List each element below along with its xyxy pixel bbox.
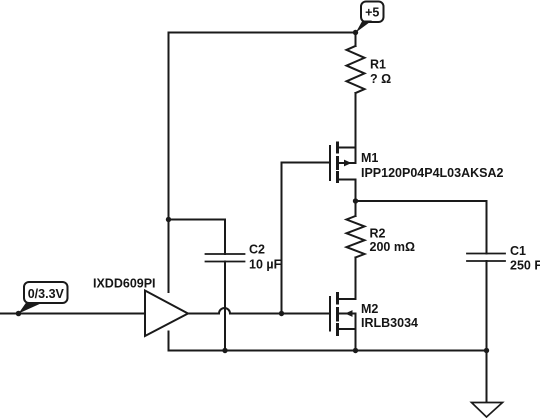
wire node to C1 top bbox=[356, 201, 487, 254]
svg-text:250 F: 250 F bbox=[510, 259, 540, 273]
node +5 junction dot bbox=[353, 30, 358, 35]
wire left vertical rail upper segment bbox=[168, 33, 170, 293]
wire driver output with hump over C2 lead bbox=[188, 308, 282, 314]
node +5 supply callout bbox=[356, 2, 384, 33]
svg-text:200 mΩ: 200 mΩ bbox=[370, 240, 415, 254]
node C2 bottom junction dot bbox=[222, 348, 227, 353]
wire R2 top lead bbox=[355, 201, 357, 216]
wire top rail from left rail to +5 node bbox=[169, 32, 356, 34]
svg-text:IXDD609PI: IXDD609PI bbox=[93, 277, 156, 291]
capacitor C1 bbox=[467, 254, 505, 262]
wire gate vertical from M1 gate down to driver output net bbox=[281, 163, 283, 314]
svg-text:? Ω: ? Ω bbox=[370, 72, 391, 86]
wire R1 top lead bbox=[355, 33, 357, 47]
wire M1 gate lead bbox=[282, 162, 331, 164]
resistor R1 bbox=[347, 46, 365, 93]
wire ground lead bbox=[486, 351, 488, 403]
node M2 source junction dot bbox=[353, 348, 358, 353]
wire C1 bottom lead to bottom rail bbox=[486, 261, 488, 351]
wire M1 drain down to node bbox=[355, 180, 357, 202]
node R1/M1-drain/R2/C1 junction dot bbox=[353, 198, 358, 203]
svg-text:C1: C1 bbox=[510, 244, 526, 258]
node C2 tap junction dot bbox=[166, 217, 171, 222]
node 0/3.3V input callout bbox=[16, 282, 68, 316]
svg-text:IPP120P04P4L03AKSA2: IPP120P04P4L03AKSA2 bbox=[361, 166, 503, 180]
svg-text:M1: M1 bbox=[361, 151, 378, 165]
wire R2 bottom lead to M2 drain bbox=[355, 258, 357, 300]
transistor M2 (N-channel MOSFET) bbox=[330, 294, 356, 351]
svg-text:M2: M2 bbox=[361, 302, 378, 316]
svg-text:10 µF: 10 µF bbox=[249, 258, 282, 272]
capacitor C2 bbox=[206, 254, 245, 262]
transistor M1 (P-channel MOSFET) bbox=[330, 143, 356, 182]
svg-text:R2: R2 bbox=[370, 227, 386, 241]
svg-text:C2: C2 bbox=[249, 243, 265, 257]
wire C2 bottom lead down to bottom rail bbox=[224, 262, 226, 351]
wire bottom rail bbox=[169, 350, 487, 352]
wire driver input bbox=[0, 313, 145, 315]
svg-text:0/3.3V: 0/3.3V bbox=[28, 287, 65, 301]
wire M2 gate lead bbox=[282, 313, 331, 315]
wire left vertical rail lower segment bbox=[168, 332, 170, 351]
node C1 bottom junction dot bbox=[484, 348, 489, 353]
wire C2 tap from left rail bbox=[169, 220, 226, 255]
node gate net junction dot bbox=[279, 311, 284, 316]
svg-text:+5: +5 bbox=[365, 6, 379, 20]
ground bbox=[472, 403, 503, 418]
op-amp U1 driver triangle IXDD609PI bbox=[145, 291, 188, 337]
svg-text:IRLB3034: IRLB3034 bbox=[361, 316, 418, 330]
resistor R2 bbox=[347, 216, 365, 258]
svg-text:R1: R1 bbox=[370, 58, 386, 72]
wire R1 bottom lead to M1 source bbox=[355, 93, 357, 148]
